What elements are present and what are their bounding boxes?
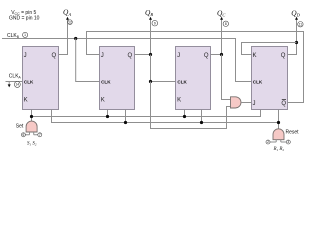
svg-text:CLK: CLK	[177, 80, 187, 85]
wire FF3 set stub	[184, 110, 186, 117]
pin circle 14 (CLK_A input)	[14, 81, 20, 87]
wire reset line R	[52, 110, 279, 123]
AND gate J_D	[231, 97, 241, 108]
svg-text:9: 9	[154, 21, 156, 25]
pin circle 11 (QD)	[298, 22, 303, 27]
junction dot S at set gate output	[30, 115, 33, 118]
svg-text:S1 S2: S1 S2	[27, 142, 37, 147]
svg-text:K: K	[253, 53, 257, 59]
junction dot CLK_B branch	[74, 37, 77, 40]
junction dot R at FF3	[200, 121, 203, 124]
wire FF3 reset stub	[201, 110, 203, 123]
svg-text:Q: Q	[204, 53, 209, 59]
wire QC to AND gate top input	[222, 55, 231, 100]
wire QB down to FF3 CLK	[151, 55, 176, 82]
pin circle 2 (R0-1)	[266, 140, 270, 144]
wire FF4 reset stub / reset gate output	[278, 110, 280, 129]
wire CLK_A input to FF1 CLK	[6, 81, 23, 83]
wire set gate input stubs	[25, 132, 37, 135]
junction dot QC output node	[220, 53, 223, 56]
svg-text:K: K	[177, 98, 181, 104]
wire CLK_B rail to FF4 CLK	[2, 39, 252, 82]
svg-text:6: 6	[22, 133, 24, 137]
pin circle 1 (CLK_B input)	[23, 32, 28, 37]
flip-flop D	[252, 47, 288, 110]
svg-text:J: J	[24, 53, 27, 59]
wire reset gate input stubs	[270, 140, 286, 142]
pin circle 12 (QA)	[68, 20, 73, 25]
wire CLK_B branch to FF2 CLK	[76, 39, 100, 82]
svg-text:Q: Q	[128, 53, 133, 59]
svg-text:1: 1	[24, 33, 26, 37]
output arrow QC	[220, 17, 223, 20]
svg-text:CLK: CLK	[101, 80, 111, 85]
AND gate Set (R9)	[26, 121, 37, 132]
pin circle 9 (QB)	[152, 20, 158, 26]
svg-text:8: 8	[225, 22, 227, 26]
wire set line S	[32, 110, 261, 122]
pin circle 7 (R9-2)	[38, 133, 42, 137]
output arrow QB	[149, 17, 152, 20]
pin circle 6 (R9-1)	[21, 133, 25, 137]
svg-text:3: 3	[287, 140, 289, 144]
junction dot QD to KD loop	[295, 41, 298, 44]
junction dot R at FF2	[124, 121, 127, 124]
svg-text:Reset: Reset	[286, 129, 300, 135]
svg-text:K: K	[101, 98, 105, 104]
flip-flop C	[176, 47, 211, 110]
svg-text:7: 7	[39, 133, 41, 137]
wire QD output to pin 11	[288, 19, 297, 54]
svg-text:GND = pin 10: GND = pin 10	[9, 15, 40, 21]
svg-text:J: J	[253, 101, 256, 107]
wire QB output node	[135, 19, 151, 54]
junction dot QB at FF3 CLK branch	[149, 80, 152, 83]
flip-flop B	[100, 47, 135, 110]
input arrow CLK_A	[8, 82, 10, 85]
svg-text:J: J	[101, 53, 104, 59]
AND gate Reset (R0)	[273, 129, 284, 140]
svg-text:CLK: CLK	[24, 80, 34, 85]
svg-text:J: J	[177, 53, 180, 59]
svg-text:2: 2	[267, 140, 269, 144]
svg-text:Q: Q	[281, 53, 286, 59]
svg-text:Q: Q	[52, 53, 57, 59]
wire FF2 reset stub	[125, 110, 127, 123]
svg-text:K: K	[24, 98, 28, 104]
wire QD loop to K of FF D	[242, 43, 297, 55]
pin circle 3 (R0-2)	[286, 140, 290, 144]
wire FF2 set stub	[107, 110, 109, 117]
svg-text:Set: Set	[16, 124, 24, 130]
svg-text:12: 12	[68, 20, 72, 24]
wire QA output to pin 12	[59, 19, 68, 54]
junction dot QB output node	[149, 53, 152, 56]
svg-text:11: 11	[299, 22, 303, 26]
svg-text:R1 R2: R1 R2	[273, 147, 285, 152]
output arrow QA	[66, 17, 69, 20]
svg-text:Q: Q	[281, 101, 286, 107]
pin circle 8 (QC)	[223, 21, 228, 26]
flip-flop A	[23, 47, 59, 110]
svg-text:CLK: CLK	[253, 80, 263, 85]
output arrow QD	[295, 17, 298, 20]
junction dot R at FF4 / reset gate	[277, 121, 280, 124]
junction dot S at FF2	[106, 115, 109, 118]
wire AND gate output to J of FF D	[241, 102, 251, 104]
wire QB down to AND gate bottom input	[151, 82, 231, 129]
wire QC output node	[211, 19, 222, 54]
wire QD-bar feedback to J of FF B	[87, 32, 304, 103]
svg-text:14: 14	[15, 83, 19, 87]
junction dot S at FF3	[183, 115, 186, 118]
